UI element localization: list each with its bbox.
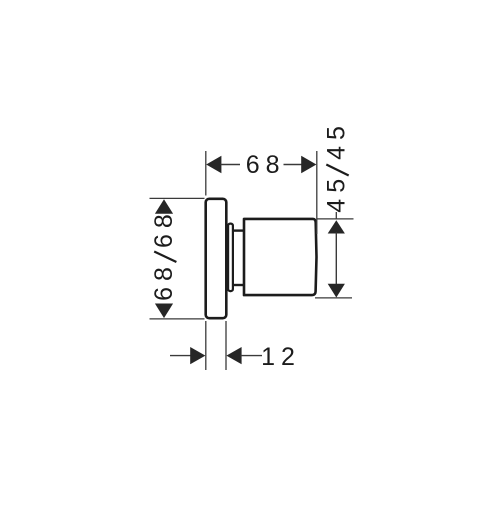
svg-text:68: 68 bbox=[246, 151, 286, 179]
dim 45/45: top arrow bbox=[328, 220, 345, 233]
dim 68/68: bottom extension line bbox=[150, 318, 205, 320]
svg-text:12: 12 bbox=[261, 343, 301, 371]
neck bottom line bbox=[234, 284, 245, 286]
dim 68/68: top arrow bbox=[155, 199, 173, 214]
svg-text:68: 68 bbox=[150, 208, 178, 248]
handle knob (side view) bbox=[244, 219, 317, 295]
plate sleeve/flange strip bbox=[228, 224, 233, 292]
dim 12: left leader line bbox=[170, 355, 192, 357]
svg-text:45: 45 bbox=[323, 173, 351, 213]
dim 68: line right segment bbox=[284, 164, 303, 166]
dim 68: left arrow bbox=[206, 156, 221, 173]
dim 12: right leader line bbox=[241, 355, 262, 357]
dim 45/45: bottom extension line bbox=[315, 297, 352, 299]
dim 12: right arrow bbox=[226, 347, 241, 364]
dim 68/68: bottom arrow bbox=[155, 304, 173, 319]
dim 45/45: label slash bbox=[326, 165, 348, 176]
dim 12: left extension line bbox=[205, 321, 207, 370]
dim 45/45: bottom arrow bbox=[328, 284, 345, 298]
dim 45/45: label stub bbox=[335, 212, 337, 219]
dim 68/68: top extension line bbox=[150, 197, 205, 199]
dim 68: right arrow bbox=[301, 156, 316, 173]
dim 68: line left segment bbox=[220, 164, 240, 166]
dim 12: right extension line bbox=[225, 321, 227, 370]
svg-text:68: 68 bbox=[150, 261, 178, 301]
escutcheon plate (side view) bbox=[206, 199, 227, 318]
dim 45/45: top extension line bbox=[317, 218, 354, 220]
neck top line bbox=[234, 229, 245, 231]
dim 68: left extension line bbox=[205, 151, 207, 196]
dim 12: left arrow bbox=[190, 347, 205, 364]
dim 68/68: label slash bbox=[154, 252, 176, 263]
dim 68: right extension line bbox=[316, 151, 318, 234]
dim 45/45: shaft bbox=[335, 233, 337, 285]
svg-text:45: 45 bbox=[323, 120, 351, 160]
